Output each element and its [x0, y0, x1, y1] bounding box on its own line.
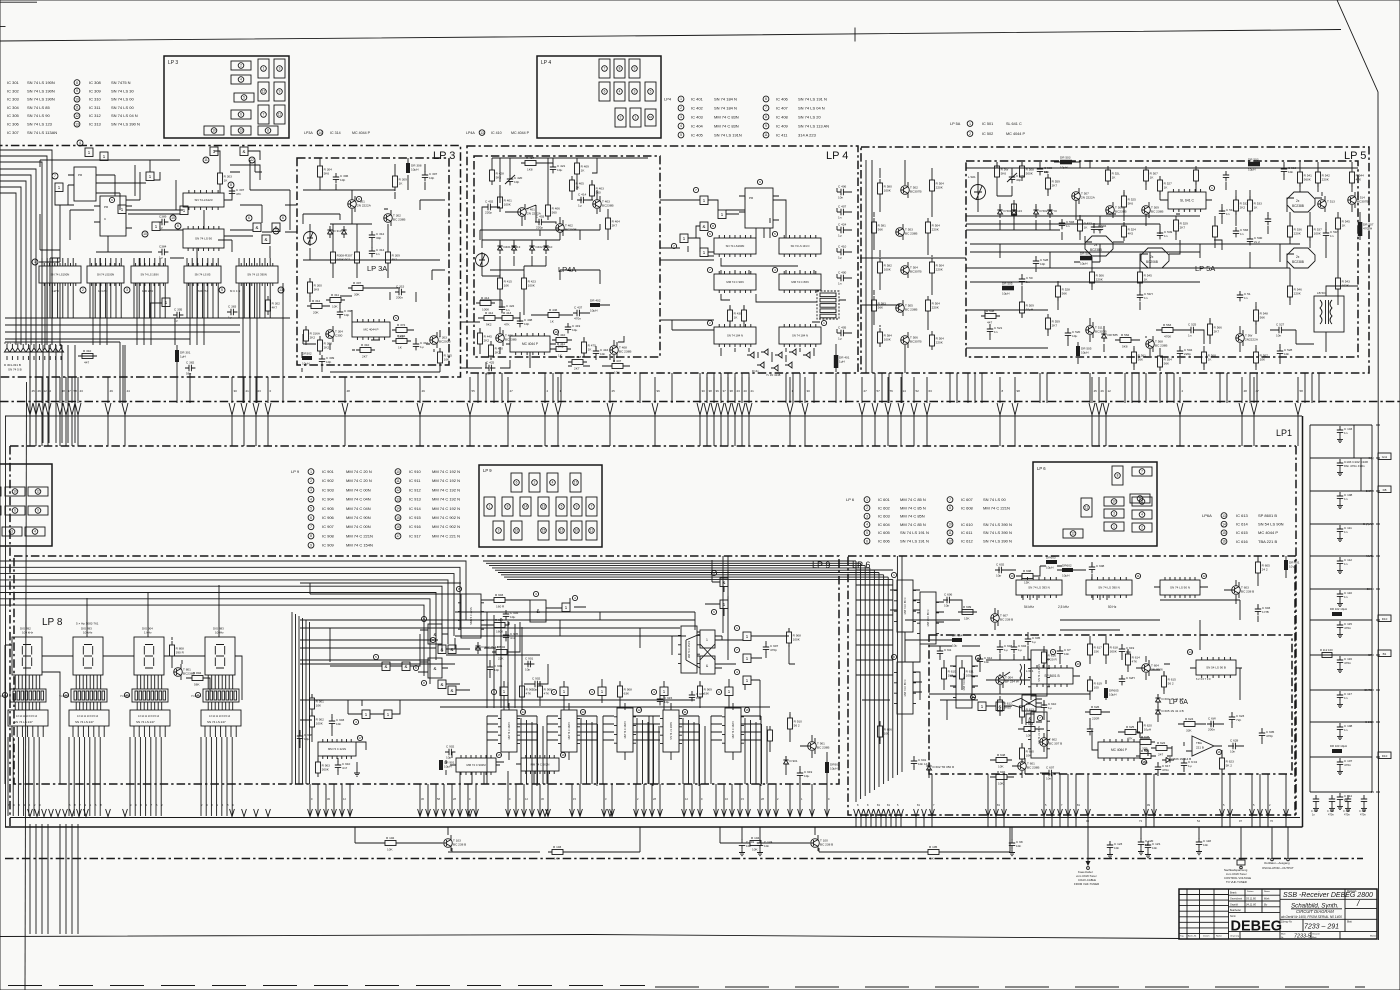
page top edge scan mark	[0, 1, 37, 3]
svg-text:R 103: R 103	[553, 845, 562, 849]
svg-text:MM 74 C 192 N: MM 74 C 192 N	[432, 487, 460, 492]
diode D504	[1047, 206, 1052, 218]
resistor R541	[1298, 168, 1313, 187]
IC917 MM74C221N	[318, 739, 356, 759]
svg-text:MUTE: MUTE	[1366, 554, 1374, 558]
resistor R527	[1158, 176, 1173, 195]
inductor DR507	[1358, 222, 1374, 236]
svg-text:IC 303: IC 303	[7, 97, 20, 102]
svg-text:MC 4044 P: MC 4044 P	[1006, 132, 1025, 136]
svg-text:1K: 1K	[588, 348, 593, 352]
svg-text:5: 5	[774, 232, 776, 236]
svg-text:DR 102 10μH: DR 102 10μH	[1330, 607, 1347, 611]
svg-text:R 625: R 625	[1126, 725, 1135, 729]
svg-text:BC238B: BC238B	[1292, 260, 1304, 264]
resistor R427	[521, 156, 540, 172]
svg-text:5K6: 5K6	[496, 176, 502, 180]
big AND gate IC907c	[421, 616, 442, 644]
svg-text:MM 74 C 154 N: MM 74 C 154 N	[688, 641, 691, 659]
transistor T5W	[1236, 330, 1259, 346]
svg-text:SN 74 LS 190N: SN 74 LS 190N	[27, 88, 55, 93]
svg-text:90n: 90n	[1126, 650, 1131, 654]
svg-text:SN 74 5 B: SN 74 5 B	[8, 368, 22, 372]
svg-text:9: 9	[279, 90, 281, 94]
svg-text:11: 11	[204, 158, 208, 162]
svg-text:1: 1	[601, 689, 604, 694]
capacitor C907r	[763, 643, 779, 653]
svg-text:1: 1	[58, 185, 61, 190]
capacitor C612	[977, 655, 993, 665]
svg-text:2: 2	[82, 288, 84, 292]
capacitor C307	[229, 187, 245, 197]
svg-text:R 418: R 418	[573, 355, 582, 359]
svg-text:10: 10	[396, 470, 400, 474]
resistor R624	[1180, 717, 1199, 733]
svg-text:R 622: R 622	[1157, 741, 1166, 745]
svg-text:8: 8	[230, 183, 232, 187]
designator 1 SL641	[1209, 185, 1214, 190]
capacitor C416	[593, 347, 609, 357]
svg-text:81: 81	[997, 803, 1000, 807]
svg-text:C 425: C 425	[486, 360, 495, 364]
capacitor C307b	[422, 171, 438, 181]
svg-text:IC 407: IC 407	[776, 105, 789, 110]
gate IC903c	[448, 645, 456, 654]
LP3 component location box	[164, 56, 289, 138]
svg-text:LP 6: LP 6	[846, 497, 855, 502]
resistor R903b	[316, 758, 331, 777]
svg-text:10p: 10p	[446, 756, 451, 760]
svg-text:10μH: 10μH	[1060, 166, 1067, 170]
svg-text:1: 1	[635, 116, 637, 120]
resistor R372	[392, 323, 411, 339]
resistor R431	[742, 306, 747, 325]
svg-text:SN 74 LS 85: SN 74 LS 85	[27, 105, 50, 110]
capacitor C118b	[1196, 827, 1212, 855]
svg-text:2: 2	[1141, 526, 1143, 530]
svg-text:72p: 72p	[1236, 718, 1241, 722]
title block signature section	[1229, 889, 1281, 939]
gate cluster IC312 d-e-f	[246, 215, 286, 244]
svg-text:1: 1	[746, 678, 749, 683]
capacitor C410	[837, 244, 847, 259]
diode DR505 zener	[1101, 330, 1106, 342]
capacitor C502	[1247, 235, 1263, 245]
capacitor C407	[573, 305, 583, 320]
svg-text:220p: 220p	[485, 211, 492, 215]
svg-text:96: 96	[657, 389, 661, 393]
coax cable note text	[1074, 870, 1099, 886]
resistor R508b	[981, 309, 1000, 325]
capacitor C510b	[1281, 165, 1297, 175]
IC915 MM74C902N	[456, 755, 496, 775]
svg-text:5K 2: 5K 2	[1226, 764, 1233, 768]
svg-text:SN 74 184 N: SN 74 184 N	[792, 334, 808, 338]
capacitor C314	[369, 247, 385, 257]
svg-text:IC 305: IC 305	[7, 113, 20, 118]
svg-text:13 12 11 10 9 15 14: 13 12 11 10 9 15 14	[16, 715, 38, 718]
resistor R52L	[1106, 166, 1121, 185]
svg-text:BC 238B: BC 238B	[1155, 344, 1167, 348]
IC606 SN74LS191N	[1028, 712, 1050, 758]
LP3A IC314 note	[304, 130, 371, 136]
capacitor C51H	[1323, 229, 1339, 239]
gate IC607a	[978, 702, 986, 711]
svg-text:7: 7	[736, 648, 738, 652]
LP1 right border	[1302, 416, 1304, 827]
svg-text:3K65: 3K65	[1004, 706, 1012, 710]
resistor R612	[998, 696, 1013, 715]
svg-text:1: 1	[103, 154, 106, 159]
svg-text:10: 10	[143, 232, 147, 236]
svg-text:12: 12	[525, 797, 528, 801]
svg-text:D 301-331 B: D 301-331 B	[4, 363, 21, 367]
svg-text:76: 76	[1270, 819, 1273, 823]
svg-text:DR 503: DR 503	[1060, 156, 1071, 160]
inductor DR504	[1248, 158, 1260, 172]
IC306 SN74LS90	[183, 226, 224, 251]
designator 10	[553, 329, 558, 334]
designator 6g	[430, 637, 435, 642]
svg-text:36: 36	[716, 389, 720, 393]
IC605 SN74LS191N	[1028, 650, 1050, 696]
resistor R615	[1162, 672, 1177, 691]
wire bundle nested at LP3 left	[0, 150, 52, 345]
resistor R428	[490, 166, 505, 185]
svg-text:2K7: 2K7	[1180, 226, 1186, 230]
svg-text:7x 1N 4148: 7x 1N 4148	[766, 373, 781, 377]
svg-text:13: 13	[480, 131, 484, 135]
svg-text:10p: 10p	[514, 180, 519, 184]
svg-text:LP 3A: LP 3A	[367, 264, 387, 273]
svg-text:SN 74 LS 90: SN 74 LS 90	[27, 113, 50, 118]
svg-text:D 901: D 901	[790, 759, 798, 763]
svg-text:SN 74 LS190N: SN 74 LS190N	[97, 273, 114, 277]
resistor R537	[1308, 222, 1323, 241]
svg-text:1: 1	[121, 207, 124, 212]
svg-text:SN 74 LS 190N: SN 74 LS 190N	[140, 273, 158, 277]
designator 14A	[1187, 649, 1192, 654]
svg-text:9: 9	[759, 180, 761, 184]
svg-text:12: 12	[343, 797, 346, 801]
svg-text:&: &	[441, 647, 444, 652]
svg-text:1: 1	[34, 260, 36, 264]
svg-text:SN 74 LS 00: SN 74 LS 00	[111, 105, 134, 110]
svg-text:2: 2	[777, 797, 779, 801]
resistor R304b	[392, 334, 411, 350]
svg-text:D 313: D 313	[334, 229, 342, 233]
svg-text:100K: 100K	[793, 638, 801, 642]
svg-text:BC307B: BC307B	[910, 190, 922, 194]
svg-text:LP 8: LP 8	[42, 617, 63, 628]
IC305 SN74LS123	[183, 190, 224, 210]
svg-text:1: 1	[365, 712, 368, 717]
IC403 MM74C90N	[714, 271, 756, 293]
svg-text:DR 503: DR 503	[1248, 158, 1259, 162]
designator 16i	[560, 752, 565, 757]
IC303 SN74LS190N	[131, 263, 168, 286]
svg-text:1K: 1K	[224, 179, 229, 183]
svg-text:5: 5	[310, 507, 312, 511]
svg-text:D8: D8	[1383, 488, 1387, 492]
svg-text:10n: 10n	[1230, 750, 1235, 754]
svg-text:8: 8	[1002, 389, 1004, 393]
svg-text:SN 74 LS 20: SN 74 LS 20	[798, 114, 821, 119]
svg-text:2: 2	[50, 389, 52, 393]
svg-text:10μH: 10μH	[830, 767, 837, 771]
svg-text:Gezeichnet: Gezeichnet	[1230, 898, 1242, 901]
svg-text:L 601: L 601	[1026, 669, 1034, 673]
svg-text:2N 3906: 2N 3906	[1151, 668, 1163, 672]
svg-text:2: 2	[547, 389, 549, 393]
resistor R910	[788, 714, 803, 733]
resistor R901	[310, 694, 325, 713]
LP3 box IC position markers	[204, 59, 285, 135]
counter IC914	[722, 708, 744, 752]
diode D404	[543, 242, 548, 254]
IC909 decoder vertical	[678, 626, 700, 673]
capacitor C389	[158, 214, 168, 229]
resistor R102	[381, 836, 400, 852]
right rail bottom caps C118 C104 C105 C106	[1310, 792, 1372, 817]
resistor R525	[1122, 192, 1137, 211]
capacitor C903	[329, 717, 345, 727]
svg-text:IC 501: IC 501	[982, 122, 993, 126]
control voltage wire	[1237, 827, 1245, 869]
svg-text:13: 13	[1222, 514, 1226, 518]
svg-text:1n: 1n	[1344, 595, 1348, 599]
svg-text:SN 74 LS 191 N: SN 74 LS 191 N	[900, 530, 929, 535]
IC313 SN74LS390N	[236, 263, 278, 286]
svg-text:4: 4	[552, 481, 554, 485]
svg-text:C384: C384	[159, 244, 167, 248]
svg-text:R 508: R 508	[986, 309, 995, 313]
svg-text:IC 908: IC 908	[322, 533, 335, 538]
LP6A board outline	[929, 635, 1292, 774]
svg-text:8: 8	[267, 129, 269, 133]
svg-text:1K: 1K	[398, 346, 403, 350]
pin wire stubs LP5 bottom	[875, 373, 1319, 403]
svg-text:&: &	[256, 225, 259, 230]
svg-text:Zchng.-Nr.: Zchng.-Nr.	[1281, 921, 1292, 924]
svg-text:470μH: 470μH	[1363, 227, 1372, 231]
svg-text:MM 74 C 902 N: MM 74 C 902 N	[432, 515, 460, 520]
transistor T406	[496, 330, 517, 346]
inductor DR302	[302, 352, 312, 366]
capacitor C605r	[1259, 729, 1275, 739]
resistor R414	[476, 296, 495, 312]
svg-text:100p: 100p	[966, 674, 973, 678]
left edge wire drops to page bottom	[30, 824, 78, 934]
designator 3-6	[891, 654, 896, 659]
svg-text:10n: 10n	[336, 722, 341, 726]
svg-text:2: 2	[240, 64, 242, 68]
svg-text:2: 2	[534, 481, 536, 485]
svg-text:SN 74 LS 247: SN 74 LS 247	[136, 720, 155, 724]
svg-text:10 kHz: 10 kHz	[83, 631, 93, 635]
svg-text:6: 6	[240, 113, 242, 117]
svg-text:5K6: 5K6	[324, 172, 330, 176]
resistor R628	[1136, 735, 1155, 751]
svg-text:100K: 100K	[884, 189, 892, 193]
LP5A mid label DR505	[1002, 282, 1014, 296]
resistor R616	[1042, 648, 1058, 667]
designator 7c	[707, 267, 712, 272]
svg-text:1K8: 1K8	[948, 674, 954, 678]
diode D901	[783, 756, 788, 768]
designator 8	[228, 182, 234, 188]
svg-text:IC 614: IC 614	[1236, 522, 1249, 527]
svg-text:PR: PR	[749, 196, 754, 200]
svg-text:49: 49	[110, 389, 114, 393]
svg-text:9: 9	[76, 89, 78, 93]
svg-text:Tag: Tag	[1180, 935, 1184, 937]
svg-text:R 413: R 413	[503, 311, 512, 315]
svg-text:16: 16	[1217, 750, 1221, 754]
svg-text:100: 100	[1094, 686, 1099, 690]
diode D402	[511, 242, 516, 254]
svg-text:47: 47	[68, 389, 72, 393]
svg-text:7: 7	[310, 525, 312, 529]
svg-text:2: 2	[866, 506, 868, 510]
svg-text:3: 3	[893, 655, 895, 659]
designator 13b	[278, 287, 284, 293]
svg-text:470p: 470p	[1266, 734, 1273, 738]
diode D503 BB110	[1033, 206, 1038, 218]
svg-text:10K: 10K	[998, 765, 1004, 769]
resistor R403	[590, 181, 605, 200]
designator 12c	[636, 707, 641, 712]
svg-text:C 6W: C 6W	[1208, 716, 1216, 720]
svg-text:16: 16	[745, 708, 749, 712]
svg-text:21: 21	[246, 389, 250, 393]
svg-text:SN 74 LS190N: SN 74 LS190N	[726, 244, 745, 248]
svg-text:LP1: LP1	[1276, 428, 1292, 438]
svg-text:11: 11	[75, 106, 79, 110]
diode D902	[475, 642, 480, 654]
svg-text:4: 4	[34, 530, 36, 534]
svg-text:4: 4	[1141, 513, 1143, 517]
bus line between boards dash-dot	[0, 401, 1400, 403]
svg-text:11: 11	[278, 113, 282, 117]
svg-text:2K7: 2K7	[1052, 184, 1058, 188]
svg-text:10μH: 10μH	[1062, 574, 1069, 578]
svg-text:10K: 10K	[504, 284, 510, 288]
resistor R546	[1288, 282, 1303, 301]
svg-text:IC 411: IC 411	[776, 132, 788, 137]
svg-text:BC 238 B: BC 238 B	[453, 843, 466, 847]
capacitor C421	[550, 163, 566, 173]
svg-text:47K: 47K	[526, 692, 532, 696]
svg-text:MM 74 C 902M: MM 74 C 902M	[466, 763, 486, 767]
svg-text:MM 74 C 20 N: MM 74 C 20 N	[346, 469, 372, 474]
svg-text:2K2: 2K2	[1240, 206, 1246, 210]
svg-text:10μH: 10μH	[590, 309, 597, 313]
connector junction V-merges into LP1	[27, 403, 1301, 446]
svg-text:IC 306: IC 306	[7, 122, 20, 127]
svg-text:1K: 1K	[1254, 206, 1259, 210]
resistor R620	[1138, 718, 1153, 737]
designator 5	[219, 287, 225, 293]
svg-text:10n: 10n	[838, 196, 843, 200]
transistor T510 hexagon	[1085, 236, 1113, 256]
svg-text:IC 604: IC 604	[878, 522, 891, 527]
svg-text:56K: 56K	[1062, 292, 1068, 296]
svg-text:10n: 10n	[486, 372, 491, 376]
svg-text:36: 36	[541, 797, 544, 801]
svg-text:&: &	[433, 666, 436, 671]
svg-text:2: 2	[969, 132, 971, 136]
capacitor C901	[524, 656, 534, 671]
svg-text:5: 5	[243, 96, 245, 100]
LP5 board outline	[861, 147, 1369, 373]
svg-text:IC 502: IC 502	[982, 132, 993, 136]
svg-text:7: 7	[765, 106, 767, 110]
svg-text:11: 11	[1136, 574, 1139, 578]
svg-text:1: 1	[823, 321, 825, 325]
svg-text:3K2: 3K2	[495, 351, 501, 355]
svg-text:470n: 470n	[1344, 763, 1351, 767]
svg-text:76: 76	[890, 389, 894, 393]
svg-text:R 105: R 105	[929, 845, 938, 849]
svg-text:99: 99	[1086, 819, 1089, 823]
IC602 MM74C85N	[917, 592, 939, 644]
svg-text:1: 1	[88, 150, 91, 155]
designator 5d	[373, 654, 378, 659]
svg-text:17: 17	[574, 481, 578, 485]
svg-text:1K: 1K	[734, 316, 739, 320]
stage wiring 2	[720, 827, 1010, 852]
LP6 wiring mesh	[880, 556, 1286, 778]
IC603 MM74C85N	[894, 662, 916, 714]
capacitor C606	[943, 592, 953, 607]
svg-text:MM 74 C 192 N: MM 74 C 192 N	[432, 469, 460, 474]
capacitor C607b	[1045, 765, 1055, 780]
wire verticals LP3 left to LP1	[30, 345, 75, 443]
svg-text:FROM VHF-TUNER: FROM VHF-TUNER	[1074, 882, 1099, 886]
svg-text:IC 605: IC 605	[878, 530, 891, 535]
resistor R312 20K	[307, 299, 326, 315]
svg-text:10: 10	[1010, 574, 1014, 578]
gate IC407c	[680, 234, 688, 243]
svg-text:470n: 470n	[1344, 813, 1350, 817]
svg-text:20: 20	[744, 389, 748, 393]
LP4 right wiring	[660, 188, 852, 372]
svg-text:6: 6	[866, 539, 868, 543]
LP4 IC401-IC411 parts list	[664, 96, 829, 138]
svg-text:IC 911: IC 911	[409, 478, 421, 483]
transistor T604	[1142, 660, 1163, 676]
extra gate IC311c	[118, 205, 126, 214]
transistor T305	[430, 332, 451, 348]
coil L601	[1020, 664, 1034, 685]
svg-text:PR: PR	[78, 173, 83, 177]
svg-text:220K: 220K	[936, 268, 944, 272]
resistor R804	[188, 671, 207, 687]
svg-text:1: 1	[718, 690, 720, 694]
title block right section dividers	[1280, 889, 1377, 939]
gate IC903a	[438, 645, 446, 654]
svg-text:48: 48	[347, 389, 351, 393]
svg-text:1n: 1n	[1240, 232, 1244, 236]
IC314 MC4044P	[352, 319, 390, 340]
IC615 MC4044P	[1098, 739, 1140, 761]
svg-text:36: 36	[421, 797, 424, 801]
svg-text:1K: 1K	[1342, 224, 1347, 228]
svg-text:12: 12	[637, 708, 641, 712]
LP6A IC613-IC616 parts list	[1202, 513, 1284, 545]
svg-text:4n7: 4n7	[342, 766, 347, 770]
